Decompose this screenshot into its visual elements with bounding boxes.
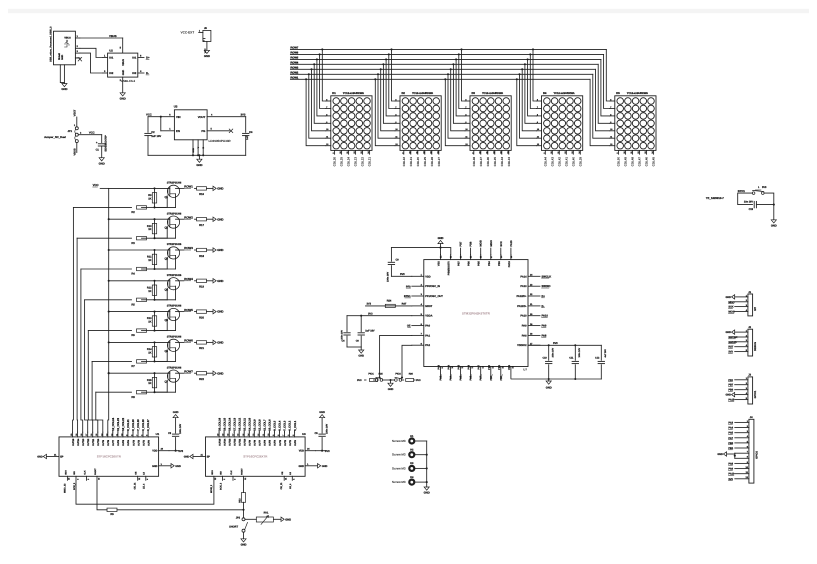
svg-text:PA6: PA6	[468, 364, 471, 369]
svg-text:PA3_: PA3_	[440, 374, 443, 381]
svg-text:VBUS: VBUS	[74, 148, 77, 155]
svg-text:PB7: PB7	[458, 261, 461, 266]
svg-text:OUT8: OUT8	[107, 439, 110, 446]
svg-text:16: 16	[237, 434, 240, 436]
svg-text:20_COL16: 20_COL16	[218, 417, 221, 430]
svg-text:D3: D3	[472, 92, 476, 95]
svg-text:R18: R18	[199, 255, 204, 258]
svg-text:6: 6	[141, 435, 144, 436]
svg-text:OUT4: OUT4	[127, 439, 130, 446]
svg-text:SDO: SDO	[211, 470, 214, 475]
svg-text:11: 11	[262, 434, 265, 436]
svg-text:U3: U3	[174, 104, 178, 108]
svg-text:OUT7: OUT7	[112, 439, 115, 446]
svg-text:VDD: VDD	[299, 450, 304, 453]
svg-text:8_COL4: 8_COL4	[279, 420, 282, 430]
svg-text:GND: GND	[217, 248, 223, 252]
svg-text:10_COL22: 10_COL22	[122, 417, 125, 430]
svg-text:GND: GND	[725, 296, 731, 299]
svg-text:SCK_3: SCK_3	[220, 482, 223, 490]
svg-text:Screw M3: Screw M3	[392, 453, 406, 457]
svg-text:OUT1: OUT1	[289, 439, 292, 446]
svg-text:STP16CPC26XTR: STP16CPC26XTR	[97, 455, 122, 459]
svg-text:COL27: COL27	[437, 157, 441, 167]
svg-text:OUT3: OUT3	[132, 439, 135, 446]
svg-text:U1: U1	[156, 432, 160, 436]
svg-text:1K: 1K	[148, 259, 151, 262]
svg-text:PA7_: PA7_	[480, 374, 483, 381]
svg-text:COL30: COL30	[416, 157, 420, 167]
svg-text:12_COL24: 12_COL24	[112, 417, 115, 430]
svg-text:100n 16V: 100n 16V	[179, 423, 182, 433]
svg-text:U7: U7	[523, 368, 527, 372]
svg-text:PIO1: PIO1	[368, 372, 374, 375]
svg-text:3V3: 3V3	[241, 113, 246, 117]
svg-text:GND: GND	[438, 237, 444, 240]
svg-text:100n 16V: 100n 16V	[578, 347, 581, 357]
svg-text:VBUS: VBUS	[122, 59, 125, 66]
svg-text:LE_4: LE_4	[289, 483, 292, 489]
svg-text:OUT12: OUT12	[87, 438, 90, 446]
svg-text:OUT1: OUT1	[142, 439, 145, 446]
svg-text:5: 5	[146, 435, 149, 436]
svg-text:PA7: PA7	[728, 437, 733, 440]
svg-text:Screw M3: Screw M3	[392, 439, 406, 443]
svg-text:R5: R5	[131, 303, 135, 306]
svg-text:13_COL9: 13_COL9	[254, 419, 257, 431]
svg-text:MISO: MISO	[728, 301, 734, 304]
svg-text:STP16CPC26XTR: STP16CPC26XTR	[243, 455, 268, 459]
svg-text:Jumper_NC_Dual: Jumper_NC_Dual	[44, 136, 66, 139]
svg-text:COL49: COL49	[624, 157, 628, 167]
svg-text:VBUS: VBUS	[109, 34, 117, 38]
svg-text:OUT2: OUT2	[137, 439, 140, 446]
svg-text:9_COL5: 9_COL5	[274, 420, 277, 430]
svg-text:20: 20	[217, 434, 220, 436]
svg-text:PB3: PB3	[498, 261, 501, 266]
svg-text:1uF: 1uF	[246, 135, 249, 140]
svg-text:VDD: VDD	[152, 450, 157, 453]
svg-text:ROW1: ROW1	[184, 185, 193, 189]
svg-text:19_COL15: 19_COL15	[223, 417, 226, 430]
svg-text:PA1: PA1	[425, 334, 430, 337]
svg-text:5: 5	[292, 435, 295, 436]
svg-text:YC12-xxSURKWA: YC12-xxSURKWA	[343, 92, 364, 95]
svg-text:COL21: COL21	[368, 157, 372, 167]
svg-text:BTN1: BTN1	[738, 189, 746, 193]
svg-text:SCK_3: SCK_3	[73, 482, 76, 490]
svg-text:12_COL8: 12_COL8	[259, 419, 262, 431]
svg-text:PB6: PB6	[470, 241, 473, 247]
svg-text:STR2P2UH6: STR2P2UH6	[167, 182, 182, 185]
svg-text:YC12-xxSURKWA: YC12-xxSURKWA	[627, 92, 648, 95]
svg-text:17: 17	[232, 434, 235, 436]
svg-text:OE_21: OE_21	[280, 482, 283, 490]
svg-text:GND: GND	[175, 465, 181, 468]
svg-text:VCC: VCC	[146, 112, 152, 116]
svg-text:R20: R20	[199, 316, 204, 319]
svg-text:COL42: COL42	[557, 157, 561, 167]
svg-text:R6: R6	[131, 334, 135, 337]
svg-text:GND: GND	[196, 163, 202, 167]
svg-text:D+: D+	[146, 56, 150, 60]
svg-text:STR2P2UH6: STR2P2UH6	[167, 366, 182, 369]
svg-text:17: 17	[85, 434, 88, 436]
svg-text:COL47: COL47	[638, 157, 642, 167]
svg-text:GND: GND	[319, 411, 325, 414]
svg-text:5_COL1: 5_COL1	[294, 420, 297, 430]
svg-text:COL22: COL22	[361, 157, 365, 167]
svg-text:GND: GND	[173, 411, 179, 414]
svg-text:OUT5: OUT5	[269, 439, 272, 446]
svg-text:COL46: COL46	[645, 157, 649, 167]
svg-text:VBUS: VBUS	[64, 36, 71, 39]
svg-text:COL34: COL34	[500, 157, 504, 167]
svg-text:CLK: CLK	[230, 470, 233, 475]
svg-text:EP: EP	[60, 456, 64, 459]
svg-text:3V3: 3V3	[368, 312, 373, 315]
svg-text:C4: C4	[249, 131, 253, 134]
svg-text:CLK: CLK	[83, 470, 86, 475]
svg-text:PA9: PA9	[522, 325, 527, 328]
svg-text:D5: D5	[616, 92, 620, 95]
svg-text:19: 19	[75, 434, 78, 436]
svg-text:OE_21: OE_21	[134, 482, 137, 490]
svg-text:GND: GND	[546, 387, 552, 390]
svg-text:PB5: PB5	[478, 261, 481, 266]
svg-text:7_COL19: 7_COL19	[137, 419, 140, 431]
svg-text:JP1: JP1	[68, 130, 73, 133]
svg-text:D2: D2	[402, 92, 406, 95]
svg-text:PA8: PA8	[542, 334, 547, 337]
svg-text:11_COL23: 11_COL23	[117, 418, 120, 431]
svg-text:3V3: 3V3	[357, 379, 362, 382]
svg-text:OUT15: OUT15	[72, 438, 75, 446]
svg-text:OUT13: OUT13	[229, 438, 232, 446]
svg-text:3V3: 3V3	[400, 273, 405, 276]
svg-text:20: 20	[70, 434, 73, 436]
svg-text:SDI: SDI	[73, 471, 76, 475]
svg-text:12: 12	[257, 434, 260, 436]
svg-text:Q1: Q1	[165, 196, 169, 199]
svg-text:8: 8	[277, 435, 280, 436]
svg-text:SCK: SCK	[500, 241, 503, 247]
svg-text:7: 7	[282, 435, 285, 436]
svg-text:ROW5: ROW5	[184, 308, 193, 312]
svg-text:10: 10	[120, 434, 123, 436]
svg-text:8: 8	[131, 435, 134, 436]
svg-text:C13: C13	[749, 208, 754, 211]
svg-text:16_COL12: 16_COL12	[238, 417, 241, 430]
svg-text:VIN: VIN	[176, 115, 181, 119]
svg-text:GND: GND	[217, 217, 223, 221]
svg-text:RST: RST	[402, 303, 407, 306]
svg-text:PA8: PA8	[728, 462, 733, 465]
svg-text:COL28: COL28	[430, 157, 434, 167]
svg-text:IO1: IO1	[132, 57, 137, 60]
svg-text:10n 16V: 10n 16V	[744, 200, 753, 203]
svg-text:Q3: Q3	[165, 258, 169, 261]
svg-text:PB6: PB6	[468, 261, 471, 266]
svg-text:R3: R3	[131, 242, 135, 245]
svg-text:PF1/OSC_OUT: PF1/OSC_OUT	[425, 295, 443, 298]
svg-text:14_COL10: 14_COL10	[249, 417, 252, 430]
svg-text:OUT13: OUT13	[82, 438, 85, 446]
svg-text:GND: GND	[725, 394, 731, 397]
svg-text:OUT12: OUT12	[234, 438, 237, 446]
svg-text:10: 10	[267, 434, 270, 436]
svg-text:PB0_: PB0_	[490, 374, 493, 381]
svg-text:11: 11	[115, 434, 118, 436]
svg-text:SWCLK: SWCLK	[542, 275, 552, 278]
svg-text:YC12-xxSURKWA: YC12-xxSURKWA	[554, 92, 575, 95]
svg-text:RV1: RV1	[264, 511, 269, 514]
svg-text:OUT14: OUT14	[77, 438, 80, 446]
svg-text:1uF 16V: 1uF 16V	[365, 329, 375, 332]
svg-text:Q2: Q2	[165, 227, 169, 230]
svg-text:VDDA: VDDA	[425, 315, 432, 318]
svg-text:MISO_22: MISO_22	[63, 483, 66, 493]
svg-text:12: 12	[110, 434, 113, 436]
svg-text:PA3: PA3	[438, 364, 441, 369]
svg-text:COL23: COL23	[354, 157, 358, 167]
svg-text:GND: GND	[217, 310, 223, 314]
svg-text:PB1: PB1	[498, 364, 501, 369]
svg-text:PA0: PA0	[425, 325, 430, 328]
svg-text:STR2P2UH6: STR2P2UH6	[167, 274, 182, 277]
svg-text:GND: GND	[61, 87, 67, 91]
svg-text:USB_micro_Recessed_USB1.0: USB_micro_Recessed_USB1.0	[50, 26, 53, 62]
svg-text:GND: GND	[358, 355, 364, 358]
svg-text:YC12-xxSURKWA: YC12-xxSURKWA	[482, 92, 503, 95]
svg-text:PB1_: PB1_	[500, 374, 503, 381]
svg-text:DEBUG: DEBUG	[754, 342, 757, 351]
svg-text:COL50: COL50	[617, 157, 621, 167]
svg-text:EP: EP	[207, 456, 211, 459]
svg-text:9: 9	[272, 435, 275, 436]
svg-text:D-: D-	[146, 71, 149, 75]
svg-text:PA3: PA3	[728, 421, 733, 424]
svg-text:19: 19	[222, 434, 225, 436]
svg-text:GND: GND	[388, 388, 394, 391]
svg-text:OUT6: OUT6	[117, 439, 120, 446]
svg-text:OUT6: OUT6	[264, 439, 267, 446]
svg-text:STR2P2UH6: STR2P2UH6	[167, 336, 182, 339]
svg-text:OUT5: OUT5	[122, 439, 125, 446]
svg-text:ROW3: ROW3	[184, 246, 193, 250]
svg-text:GND: GND	[717, 453, 723, 456]
svg-text:OUT0: OUT0	[294, 439, 297, 446]
svg-text:PB4: PB4	[488, 261, 491, 266]
svg-text:OUT7: OUT7	[259, 439, 262, 446]
svg-text:COL24: COL24	[347, 157, 351, 167]
svg-text:GND: GND	[424, 491, 430, 495]
svg-text:R17: R17	[199, 224, 204, 227]
svg-text:6: 6	[287, 435, 290, 436]
svg-text:PA15: PA15	[510, 240, 513, 247]
svg-text:15_COL11: 15_COL11	[243, 418, 246, 431]
svg-text:OUT11: OUT11	[239, 438, 242, 446]
svg-text:R22: R22	[199, 378, 204, 381]
svg-text:D4: D4	[543, 92, 547, 95]
svg-text:ROW4: ROW4	[184, 277, 193, 281]
svg-text:1K: 1K	[148, 228, 151, 231]
svg-text:OUT0: OUT0	[147, 439, 150, 446]
svg-text:PA14: PA14	[520, 275, 527, 278]
svg-text:C2: C2	[151, 131, 155, 134]
svg-text:17_COL13: 17_COL13	[233, 417, 236, 430]
svg-text:10_COL6: 10_COL6	[269, 419, 272, 431]
svg-text:C10: C10	[542, 357, 547, 360]
svg-text:EEH2E0J470P: EEH2E0J470P	[105, 135, 108, 152]
svg-text:100n 16V: 100n 16V	[326, 423, 329, 433]
svg-text:COL31: COL31	[409, 157, 413, 167]
svg-text:GND: GND	[120, 96, 126, 100]
svg-text:VEXT: VEXT	[74, 109, 77, 116]
svg-text:3V3: 3V3	[325, 450, 330, 453]
svg-text:COL43: COL43	[550, 157, 554, 167]
svg-text:GND: GND	[298, 465, 304, 468]
svg-text:OUT2: OUT2	[284, 439, 287, 446]
svg-text:D1: D1	[332, 92, 336, 95]
svg-text:PF0/OSC_IN: PF0/OSC_IN	[425, 285, 440, 288]
svg-text:GND: GND	[122, 70, 125, 76]
svg-text:PB7: PB7	[460, 241, 463, 247]
svg-text:PG: PG	[201, 129, 205, 133]
svg-text:COL41: COL41	[564, 157, 568, 167]
svg-text:COL44: COL44	[543, 157, 547, 167]
svg-text:PA7: PA7	[478, 364, 481, 369]
svg-text:C11: C11	[569, 357, 574, 360]
svg-text:3V3: 3V3	[728, 478, 733, 481]
svg-text:OUT15: OUT15	[218, 438, 221, 446]
svg-text:COL40: COL40	[571, 157, 575, 167]
svg-text:ROW7: ROW7	[184, 369, 193, 373]
svg-text:R21: R21	[199, 347, 204, 350]
svg-text:VCC-EXT: VCC-EXT	[181, 30, 195, 34]
svg-text:3V3: 3V3	[553, 342, 558, 345]
svg-text:Screw M3: Screw M3	[392, 480, 406, 484]
svg-text:SWDIO: SWDIO	[728, 341, 736, 344]
svg-text:NRST: NRST	[425, 305, 432, 308]
svg-text:OUT8: OUT8	[254, 439, 257, 446]
svg-text:PB0: PB0	[488, 364, 491, 369]
svg-text:1K: 1K	[148, 197, 151, 200]
svg-text:3V3: 3V3	[178, 450, 183, 453]
svg-text:C12: C12	[595, 357, 600, 360]
svg-text:OUT9: OUT9	[249, 439, 252, 446]
svg-text:MOSI: MOSI	[480, 240, 483, 247]
svg-text:STR2P2UH6: STR2P2UH6	[167, 243, 182, 246]
svg-text:GND: GND	[217, 341, 223, 345]
svg-text:GND: GND	[152, 465, 158, 468]
svg-text:COL38: COL38	[472, 157, 476, 167]
svg-text:VSS: VSS	[508, 365, 511, 370]
svg-text:PA8: PA8	[522, 334, 527, 337]
svg-text:ROW2: ROW2	[184, 215, 193, 219]
svg-text:COL45: COL45	[652, 157, 656, 167]
svg-text:13: 13	[252, 434, 255, 436]
svg-text:Q6: Q6	[165, 350, 169, 353]
svg-text:100n 16V: 100n 16V	[551, 347, 554, 357]
svg-text:OUT3: OUT3	[279, 439, 282, 446]
svg-text:Q7: Q7	[165, 381, 169, 384]
svg-text:OUT10: OUT10	[97, 438, 100, 446]
svg-text:GPIO2: GPIO2	[756, 451, 759, 459]
svg-text:PA11/D-: PA11/D-	[517, 305, 526, 308]
svg-text:PA4: PA4	[448, 364, 451, 369]
svg-text:VDDIO2: VDDIO2	[517, 344, 527, 347]
svg-text:GND: GND	[217, 187, 223, 191]
svg-text:4u7 16V: 4u7 16V	[604, 349, 607, 358]
svg-text:9_COL21: 9_COL21	[127, 419, 130, 431]
svg-text:GND: GND	[61, 55, 64, 60]
svg-text:VDD: VDD	[425, 275, 431, 278]
svg-text:15: 15	[242, 434, 245, 436]
svg-text:PB0: PB0	[728, 442, 733, 445]
svg-text:PA5_: PA5_	[460, 374, 463, 381]
svg-text:Q5: Q5	[165, 319, 169, 322]
svg-text:IO2: IO2	[109, 72, 114, 75]
svg-text:GND: GND	[99, 161, 105, 165]
svg-text:3V3: 3V3	[762, 186, 767, 189]
svg-text:R2: R2	[131, 211, 135, 214]
svg-text:STR2P2UH6: STR2P2UH6	[167, 305, 182, 308]
svg-text:COL36: COL36	[486, 157, 490, 167]
svg-text:VCC: VCC	[93, 183, 100, 187]
svg-text:6_COL2: 6_COL2	[289, 420, 292, 430]
svg-text:PIO2: PIO2	[395, 372, 401, 375]
svg-text:9: 9	[125, 435, 128, 436]
svg-text:COL39: COL39	[578, 157, 582, 167]
svg-text:PA5: PA5	[458, 364, 461, 369]
svg-text:GND: GND	[771, 224, 777, 227]
svg-text:PB8/BOOT0: PB8/BOOT0	[448, 261, 451, 276]
svg-text:IO2: IO2	[132, 72, 137, 75]
svg-text:SHORT: SHORT	[229, 526, 238, 529]
svg-text:PF0: PF0	[728, 379, 733, 382]
svg-text:COL37: COL37	[479, 157, 483, 167]
svg-text:D-: D-	[542, 305, 545, 308]
svg-text:1K: 1K	[148, 351, 151, 354]
svg-text:VSS: VSS	[438, 261, 441, 266]
svg-text:GND: GND	[285, 518, 291, 521]
svg-text:OUT10: OUT10	[244, 438, 247, 446]
svg-text:R24: R24	[387, 299, 392, 302]
svg-text:PA2: PA2	[425, 344, 430, 347]
svg-text:1K: 1K	[148, 382, 151, 385]
svg-text:1K: 1K	[148, 290, 151, 293]
svg-text:GND: GND	[204, 54, 210, 58]
svg-text:11_COL7: 11_COL7	[264, 419, 267, 431]
svg-text:7: 7	[136, 435, 139, 436]
svg-text:PA12/D+: PA12/D+	[516, 295, 527, 298]
svg-text:LE_4: LE_4	[143, 483, 146, 489]
svg-text:COL26: COL26	[333, 157, 337, 167]
svg-text:1uF 16V: 1uF 16V	[151, 135, 161, 138]
svg-text:18: 18	[80, 434, 83, 436]
svg-text:R23: R23	[239, 498, 242, 503]
svg-text:8_COL20: 8_COL20	[132, 419, 135, 431]
svg-text:GND: GND	[725, 331, 731, 334]
svg-text:U2: U2	[109, 49, 113, 53]
svg-text:SPI: SPI	[754, 307, 757, 311]
svg-text:IO1: IO1	[109, 57, 114, 60]
svg-text:GND: GND	[322, 465, 328, 468]
svg-text:SDO: SDO	[64, 470, 67, 475]
svg-text:R-EXT: R-EXT	[94, 468, 97, 475]
svg-text:13: 13	[105, 434, 108, 436]
